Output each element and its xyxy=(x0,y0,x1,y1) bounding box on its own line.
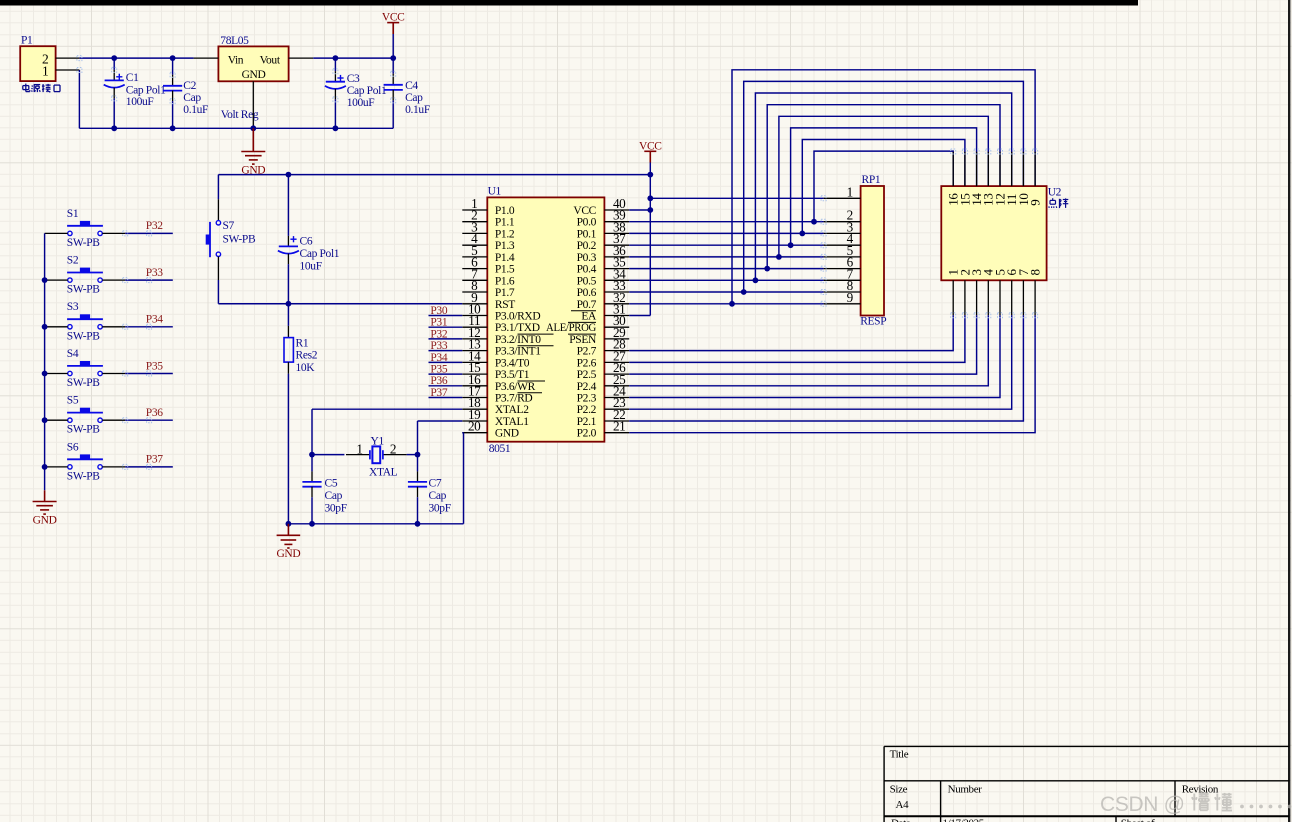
pin 9 (RST) xyxy=(462,290,515,311)
label S4 xyxy=(67,348,79,360)
wire bus P0.2 to U2 pin 14 xyxy=(791,128,977,245)
svg-text:P2.0: P2.0 xyxy=(577,428,597,440)
resistor network RP1 body xyxy=(861,186,884,316)
junction C6 bottom xyxy=(286,301,292,307)
svg-text:P0.7: P0.7 xyxy=(577,299,597,311)
value Res2 xyxy=(296,350,318,362)
svg-text:CSDN @: CSDN @ xyxy=(1100,793,1185,816)
net label P31 xyxy=(430,317,447,329)
wire net P0.5 (pin 34 to RP1 pin 7) xyxy=(629,279,823,281)
pin 8 (P1.7) xyxy=(462,278,515,299)
net label P35 xyxy=(430,364,447,376)
pin 4 (P1.3) xyxy=(462,231,515,252)
svg-text:P1.1: P1.1 xyxy=(495,217,515,229)
svg-text:RESP: RESP xyxy=(860,316,886,328)
pin 9 (RP1) xyxy=(824,290,861,305)
svg-text:P37: P37 xyxy=(146,454,163,466)
capacitor C1 xyxy=(104,58,125,128)
wire bus P0.6 to U2 pin 10 xyxy=(744,81,1024,292)
wire P1 pin1 down to ground rail xyxy=(79,70,114,128)
grid markers (P1/caps) xyxy=(77,56,396,104)
value 100uF xyxy=(126,96,154,108)
svg-text:ALE/PROG: ALE/PROG xyxy=(546,322,596,334)
pin 21 (P2.0) xyxy=(577,419,630,440)
label U1 xyxy=(488,186,502,198)
capacitor C4 xyxy=(384,58,403,128)
svg-text:Number: Number xyxy=(948,784,983,796)
wire net P34 (pin 14) xyxy=(429,361,463,363)
junction VCC rail xyxy=(647,172,653,178)
svg-text:S6: S6 xyxy=(67,441,79,453)
svg-text:S5: S5 xyxy=(67,395,79,407)
svg-text:P2.2: P2.2 xyxy=(577,404,597,416)
label C6 xyxy=(300,236,313,248)
svg-text:Cap: Cap xyxy=(429,490,447,502)
overline EA xyxy=(571,310,596,312)
pin 13 (U2 top) xyxy=(981,152,996,206)
wire pin40 to VCC xyxy=(629,209,650,211)
overline INT0 xyxy=(518,333,554,335)
svg-text:Size: Size xyxy=(890,784,908,796)
pin 3 (P1.2) xyxy=(462,219,515,240)
svg-text:VCC: VCC xyxy=(639,140,662,152)
wire net P32 (pin 12) xyxy=(429,338,463,340)
wire bus P0.7 to U2 pin 9 xyxy=(732,70,1035,304)
svg-text:EA: EA xyxy=(581,311,597,323)
overline WR xyxy=(518,380,546,382)
pin 36 (P0.3) xyxy=(577,243,630,264)
capacitor C5 xyxy=(302,455,321,524)
pin 39 (P0.0) xyxy=(577,208,630,229)
wire crystal right xyxy=(407,454,418,456)
svg-text:P34: P34 xyxy=(146,314,163,326)
wire switches ground rail xyxy=(44,233,46,490)
svg-text:C4: C4 xyxy=(405,80,418,92)
pin 11 (P3.1/TXD) xyxy=(462,313,539,334)
wire net P32 (S1) xyxy=(125,232,173,234)
wire net P2.3 (pin 24 to U2 pin 5) xyxy=(629,315,1000,397)
svg-text:P2.5: P2.5 xyxy=(577,369,597,381)
pin 12 (P3.2/INT0) xyxy=(462,325,541,346)
label C3 xyxy=(347,73,360,85)
svg-text:P3.6/WR: P3.6/WR xyxy=(495,381,536,393)
resistor R1 xyxy=(284,304,293,524)
svg-text:P1.3: P1.3 xyxy=(495,240,515,252)
svg-text:R1: R1 xyxy=(296,338,309,350)
svg-text:RST: RST xyxy=(495,299,515,311)
wire net P0.3 (pin 36 to RP1 pin 5) xyxy=(629,256,823,258)
pin 5 (RP1) xyxy=(824,243,861,258)
label RESP xyxy=(860,316,886,328)
net label P37 xyxy=(146,454,163,466)
wire bus P0.0 to U2 pin 16 xyxy=(814,151,953,222)
value Cap Pol1 xyxy=(126,85,166,97)
pin 15 (U2 top) xyxy=(957,152,972,206)
pin 4 (RP1) xyxy=(824,231,861,246)
svg-text:P34: P34 xyxy=(430,352,447,364)
svg-text:P3.4/T0: P3.4/T0 xyxy=(495,357,530,369)
svg-text:100uF: 100uF xyxy=(126,96,154,108)
junction C3 top xyxy=(333,55,339,61)
svg-text:0.1uF: 0.1uF xyxy=(405,104,430,116)
svg-text:GND: GND xyxy=(242,69,266,81)
pin 32 (P0.7) xyxy=(577,290,630,311)
svg-text:P1: P1 xyxy=(21,34,33,46)
svg-text:20: 20 xyxy=(468,419,481,434)
pin 33 (P0.6) xyxy=(577,278,630,299)
svg-text:30pF: 30pF xyxy=(325,502,347,514)
watermark CSDN @mengdong xyxy=(1100,793,1291,816)
pin 7 (U2 bottom) xyxy=(1016,269,1031,316)
pin 18 (XTAL2) xyxy=(462,395,529,416)
label 8051 xyxy=(489,443,511,455)
overline INT1 xyxy=(518,345,554,347)
svg-text:Date: Date xyxy=(891,818,911,822)
pin 14 (P3.4/T0) xyxy=(462,348,529,369)
wire net P30 (pin 10) xyxy=(429,315,463,317)
junction C4 top xyxy=(390,55,396,61)
label Revision xyxy=(1182,784,1219,796)
pin 8 (U2 bottom) xyxy=(1028,269,1043,315)
svg-text:9: 9 xyxy=(847,290,854,305)
title block frame xyxy=(884,746,1289,822)
junction P0.6 bus xyxy=(741,289,747,295)
wire net P0.4 (pin 35 to RP1 pin 6) xyxy=(629,268,823,270)
svg-text:Vin: Vin xyxy=(228,54,244,66)
svg-text:XTAL: XTAL xyxy=(369,466,398,478)
svg-text:P36: P36 xyxy=(430,375,447,387)
grid markers (faint) xyxy=(821,149,1038,318)
value 10uF xyxy=(300,261,322,273)
wire net P2.4 (pin 25 to U2 pin 4) xyxy=(629,315,988,386)
pin 2 (U2 bottom) xyxy=(957,269,972,315)
sheet border top bar xyxy=(0,0,1138,6)
svg-text:P32: P32 xyxy=(430,328,447,340)
plus sign C3 xyxy=(337,75,343,81)
switch S3 xyxy=(45,314,126,329)
svg-text:P32: P32 xyxy=(146,220,163,232)
label RP1 xyxy=(862,174,881,186)
pin 27 (P2.6) xyxy=(577,348,630,369)
junction rail S4 xyxy=(42,371,48,377)
pin 2 (RP1) xyxy=(824,208,861,223)
svg-text:1: 1 xyxy=(42,63,48,78)
net label P37 xyxy=(430,387,447,399)
svg-text:0.1uF: 0.1uF xyxy=(183,104,208,116)
value Cap (C2) xyxy=(183,92,201,104)
pin Vout xyxy=(289,57,314,59)
wire net P2.2 (pin 23 to U2 pin 6) xyxy=(629,315,1012,409)
junction P0.2 bus xyxy=(788,242,794,248)
svg-text:P0.2: P0.2 xyxy=(577,240,597,252)
net label P33 xyxy=(430,340,447,352)
net label P36 xyxy=(146,407,163,419)
net label P34 xyxy=(430,352,447,364)
svg-text:C2: C2 xyxy=(183,80,196,92)
label C7 xyxy=(429,478,442,490)
svg-text:1: 1 xyxy=(356,442,362,457)
label 78L05 xyxy=(220,35,249,47)
svg-text:C6: C6 xyxy=(300,236,313,248)
junction 78L05 GND xyxy=(250,125,256,131)
pin 16 (U2 top) xyxy=(946,152,961,206)
pin 20 (GND) xyxy=(462,419,519,440)
svg-text:S4: S4 xyxy=(67,348,79,360)
label dianyuanjiekou (power connector) xyxy=(23,84,60,93)
label Number xyxy=(948,784,983,796)
svg-text:Vout: Vout xyxy=(260,54,281,66)
svg-text:P35: P35 xyxy=(146,360,163,372)
svg-text:P1.5: P1.5 xyxy=(495,264,515,276)
svg-text:P3.0/RXD: P3.0/RXD xyxy=(495,311,540,323)
pin GND (78L05) xyxy=(252,81,254,128)
wire net P2.6 (pin 27 to U2 pin 2) xyxy=(629,315,965,362)
svg-text:SW-PB: SW-PB xyxy=(223,234,256,246)
value 30pF (C7) xyxy=(429,502,451,514)
svg-text:8051: 8051 xyxy=(489,443,511,455)
svg-text:P3.7/RD: P3.7/RD xyxy=(495,393,533,405)
pin 30 (ALE/PROG) xyxy=(546,313,629,334)
svg-text:P0.0: P0.0 xyxy=(577,217,597,229)
overline PSEN xyxy=(568,333,596,335)
net label P36 xyxy=(430,375,447,387)
value Cap (C7) xyxy=(429,490,447,502)
svg-text:C3: C3 xyxy=(347,73,360,85)
wire net P2.7 (pin 28 to U2 pin 1) xyxy=(629,315,953,350)
pin 23 (P2.2) xyxy=(577,395,630,416)
wire VCC vertical to EA xyxy=(629,163,650,316)
value 10K xyxy=(296,362,316,374)
svg-text:P0.1: P0.1 xyxy=(577,228,597,240)
svg-text:SW-PB: SW-PB xyxy=(67,284,100,296)
junction C1 top xyxy=(111,55,117,61)
grid markers (switch pins) xyxy=(123,231,152,470)
wire XTAL2 to crystal xyxy=(312,409,462,454)
label Title xyxy=(890,749,909,761)
wire net P31 (pin 11) xyxy=(429,326,463,328)
pin 29 (PSEN) xyxy=(569,325,629,346)
junction C3 bottom xyxy=(333,125,339,131)
svg-text:P33: P33 xyxy=(430,340,447,352)
switch S7 xyxy=(206,175,221,304)
value Cap Pol1 (C6) xyxy=(300,248,340,260)
wire XTAL1 to crystal xyxy=(418,421,463,455)
pin 8 (RP1) xyxy=(824,278,861,293)
junction C2 bottom xyxy=(170,125,176,131)
value 100uF (C3) xyxy=(347,97,375,109)
pin 13 (P3.3/INT1) xyxy=(462,337,541,358)
svg-text:P3.3/INT1: P3.3/INT1 xyxy=(495,346,541,358)
junction rail S5 xyxy=(42,417,48,423)
svg-text:P37: P37 xyxy=(430,387,447,399)
wire net P2.0 (pin 21 to U2 pin 8) xyxy=(629,315,1035,432)
junction VCC pin40 xyxy=(647,207,653,213)
wire net P0.7 (pin 32 to RP1 pin 9) xyxy=(629,303,823,305)
svg-text:8: 8 xyxy=(1028,269,1043,275)
wire S7 to RST xyxy=(218,303,462,305)
svg-text:P1.7: P1.7 xyxy=(495,287,515,299)
svg-text:P2.4: P2.4 xyxy=(577,381,597,393)
wire net P0.6 (pin 33 to RP1 pin 8) xyxy=(629,291,823,293)
svg-text:21: 21 xyxy=(613,419,626,434)
ground GND (78L05) xyxy=(241,128,265,176)
pin 9 (U2 top) xyxy=(1028,152,1043,206)
junction C6 top / rail xyxy=(286,172,292,178)
value 0.1uF (C4) xyxy=(405,104,430,116)
sheet border right edge xyxy=(1288,0,1290,822)
value 1/17/2025 xyxy=(943,818,985,822)
capacitor C7 xyxy=(408,455,427,524)
svg-text:P0.5: P0.5 xyxy=(577,275,597,287)
svg-text:Sheet of: Sheet of xyxy=(1121,818,1155,822)
capacitor C6 xyxy=(278,175,299,304)
label C2 xyxy=(183,80,196,92)
wire VCC to RP1 pin 1 xyxy=(650,197,823,199)
svg-text:10K: 10K xyxy=(296,362,316,374)
svg-text:P3.2/INT0: P3.2/INT0 xyxy=(495,334,541,346)
pin 1 (RP1) xyxy=(824,184,861,199)
power VCC (8051) xyxy=(639,140,662,162)
pin 24 (P2.3) xyxy=(577,384,630,405)
wire P1 pin2 to Vin rail xyxy=(79,57,193,59)
power VCC (top) xyxy=(382,12,405,34)
svg-text:Cap Pol1: Cap Pol1 xyxy=(300,248,340,260)
pin 38 (P0.1) xyxy=(577,219,630,240)
overline PROG xyxy=(568,321,596,323)
pin 11 (U2 top) xyxy=(1004,152,1019,206)
svg-text:2: 2 xyxy=(390,442,396,457)
net label P32 xyxy=(430,328,447,340)
svg-text:P2.3: P2.3 xyxy=(577,393,597,405)
wire net P37 (pin 17) xyxy=(429,397,463,399)
svg-text:U1: U1 xyxy=(488,186,502,198)
svg-text:P30: P30 xyxy=(430,305,447,317)
pin 3 (RP1) xyxy=(824,219,861,234)
pin 3 (U2 bottom) xyxy=(969,269,984,315)
label S3 xyxy=(67,301,79,313)
pin 22 (P2.1) xyxy=(577,407,630,428)
pin 6 (RP1) xyxy=(824,255,861,270)
label S6 xyxy=(67,441,79,453)
switch S1 xyxy=(45,221,126,236)
svg-text:1: 1 xyxy=(847,184,853,199)
wire VCC stub to rail xyxy=(392,34,394,58)
svg-text:P1.0: P1.0 xyxy=(495,205,515,217)
svg-text:P3.5/T1: P3.5/T1 xyxy=(495,369,530,381)
svg-text:S2: S2 xyxy=(67,255,79,267)
svg-text:SW-PB: SW-PB xyxy=(67,377,100,389)
svg-text:SW-PB: SW-PB xyxy=(67,470,100,482)
label S1 xyxy=(67,208,79,220)
svg-text:P1.6: P1.6 xyxy=(495,275,515,287)
junction P0.0 bus xyxy=(811,219,817,225)
junction rail S3 xyxy=(42,324,48,330)
capacitor C3 xyxy=(325,58,346,128)
pin 12 (U2 top) xyxy=(992,152,1007,206)
svg-text:C1: C1 xyxy=(126,72,139,84)
pin 14 (U2 top) xyxy=(969,152,984,206)
svg-text:P0.3: P0.3 xyxy=(577,252,597,264)
wire net P2.5 (pin 26 to U2 pin 3) xyxy=(629,315,976,374)
junction C5 bottom xyxy=(309,521,315,527)
value Cap Pol1 (C3) xyxy=(347,85,387,97)
svg-text:GND: GND xyxy=(495,428,519,440)
wire net P33 (pin 13) xyxy=(429,350,463,352)
regulator U 78L05 xyxy=(218,46,288,81)
plus sign C6 xyxy=(290,236,296,242)
pin 17 (P3.7/RD) xyxy=(462,384,532,405)
value 30pF (C5) xyxy=(325,502,347,514)
pin 1 (P1.0) xyxy=(462,196,515,217)
crystal Y1 xyxy=(346,446,407,463)
junction P0.5 bus xyxy=(753,277,759,283)
label SW-PB (S6) xyxy=(67,470,100,482)
svg-text:C5: C5 xyxy=(325,478,338,490)
label SW-PB (S1) xyxy=(67,237,100,249)
pin 5 (P1.4) xyxy=(462,243,515,264)
wire VCC rail to S7/C6 xyxy=(218,174,650,176)
svg-text:9: 9 xyxy=(1028,200,1043,206)
label SW-PB (S2) xyxy=(67,284,100,296)
svg-text:P3.1/TXD: P3.1/TXD xyxy=(495,322,540,334)
value Cap (C5) xyxy=(325,490,343,502)
ground GND (crystal) xyxy=(276,524,300,560)
wire net P37 (S6) xyxy=(125,466,173,468)
svg-text:PSEN: PSEN xyxy=(569,334,597,346)
svg-text:SW-PB: SW-PB xyxy=(67,237,100,249)
pin 15 (P3.5/T1) xyxy=(462,360,529,381)
pin 40 (VCC) xyxy=(573,196,629,217)
svg-text:S3: S3 xyxy=(67,301,79,313)
svg-text:XTAL2: XTAL2 xyxy=(495,404,529,416)
pin 34 (P0.5) xyxy=(577,266,630,287)
svg-text:XTAL1: XTAL1 xyxy=(495,416,529,428)
svg-text:SW-PB: SW-PB xyxy=(67,424,100,436)
svg-text:P36: P36 xyxy=(146,407,163,419)
wire Vout to VCC node xyxy=(313,57,393,59)
pin 4 (U2 bottom) xyxy=(981,269,996,316)
svg-text:Title: Title xyxy=(890,749,909,761)
pin 7 (P1.6) xyxy=(462,266,515,287)
label R1 xyxy=(296,338,309,350)
svg-text:78L05: 78L05 xyxy=(220,35,249,47)
connector P1 xyxy=(20,46,55,81)
svg-text:Cap: Cap xyxy=(325,490,343,502)
svg-text:Cap Pol1: Cap Pol1 xyxy=(347,85,387,97)
wire net P36 (S5) xyxy=(125,419,173,421)
pin 6 (U2 bottom) xyxy=(1004,269,1019,316)
junction C2 top xyxy=(170,55,176,61)
wire net P35 (pin 15) xyxy=(429,373,463,375)
pin 19 (XTAL1) xyxy=(462,407,529,428)
wire crystal left xyxy=(312,454,344,456)
pin 28 (P2.7) xyxy=(577,337,630,358)
svg-text:P2.1: P2.1 xyxy=(577,416,597,428)
ground GND (switches) xyxy=(33,490,57,526)
label Y1 xyxy=(371,436,385,448)
junction rail S6 xyxy=(42,464,48,470)
label C5 xyxy=(325,478,338,490)
wire bus P0.4 to U2 pin 12 xyxy=(767,105,1000,269)
pin 35 (P0.4) xyxy=(577,255,630,276)
wire pin20 GND down xyxy=(462,433,463,524)
net label P32 xyxy=(146,220,163,232)
label Date xyxy=(891,818,911,822)
label S2 xyxy=(67,255,79,267)
svg-text:30pF: 30pF xyxy=(429,502,451,514)
junction C1 bottom xyxy=(111,125,117,131)
value Cap (C4) xyxy=(405,92,423,104)
